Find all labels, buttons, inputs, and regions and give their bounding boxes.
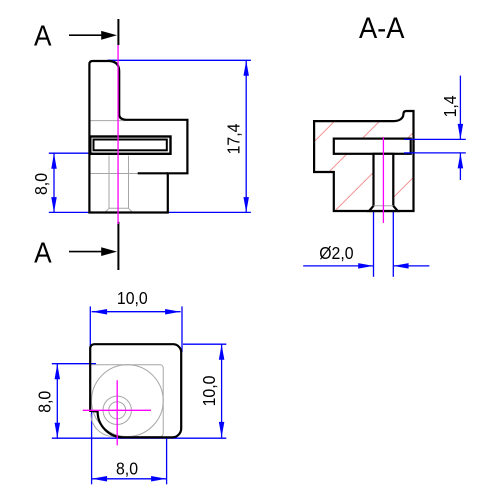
svg-text:Ø2,0: Ø2,0 (319, 243, 353, 263)
svg-text:A: A (34, 236, 52, 268)
svg-text:1,4: 1,4 (440, 95, 460, 117)
svg-text:8,0: 8,0 (116, 459, 138, 479)
svg-text:A: A (34, 19, 52, 51)
svg-text:A-A: A-A (359, 12, 405, 45)
svg-text:10,0: 10,0 (117, 288, 148, 308)
svg-text:8,0: 8,0 (31, 173, 51, 195)
svg-text:10,0: 10,0 (199, 376, 219, 407)
svg-text:17,4: 17,4 (224, 124, 244, 155)
svg-text:8,0: 8,0 (35, 391, 55, 413)
